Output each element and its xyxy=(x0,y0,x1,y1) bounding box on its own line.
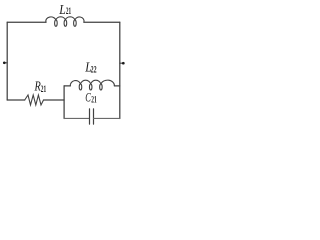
svg-text:22: 22 xyxy=(91,65,97,75)
wire resistor to left bar xyxy=(44,99,65,101)
wire top-left horizontal xyxy=(7,21,46,23)
svg-text:21: 21 xyxy=(41,85,47,95)
inductor L21 xyxy=(46,17,84,26)
capacitor C21 plates xyxy=(90,109,94,124)
wire top-right horizontal xyxy=(84,21,120,23)
inductor L22 xyxy=(70,80,114,90)
svg-text:L: L xyxy=(58,3,66,18)
wire L22 branch lead-out xyxy=(114,85,119,87)
wire right vertical xyxy=(119,22,121,118)
wire bottom-left to resistor xyxy=(7,99,25,101)
wire left bar of parallel LC xyxy=(63,86,65,119)
wire C21 branch left xyxy=(64,117,89,119)
node dot right terminal xyxy=(122,62,125,65)
svg-text:21: 21 xyxy=(66,6,72,16)
terminal stub right xyxy=(120,62,124,64)
wire L22 branch lead-in xyxy=(64,85,70,87)
svg-text:21: 21 xyxy=(91,95,97,105)
node dot left terminal xyxy=(3,61,6,64)
terminal stub left xyxy=(4,62,7,64)
wire C21 branch right xyxy=(94,117,120,119)
resistor R21 xyxy=(25,95,44,105)
wire left vertical xyxy=(6,22,8,100)
